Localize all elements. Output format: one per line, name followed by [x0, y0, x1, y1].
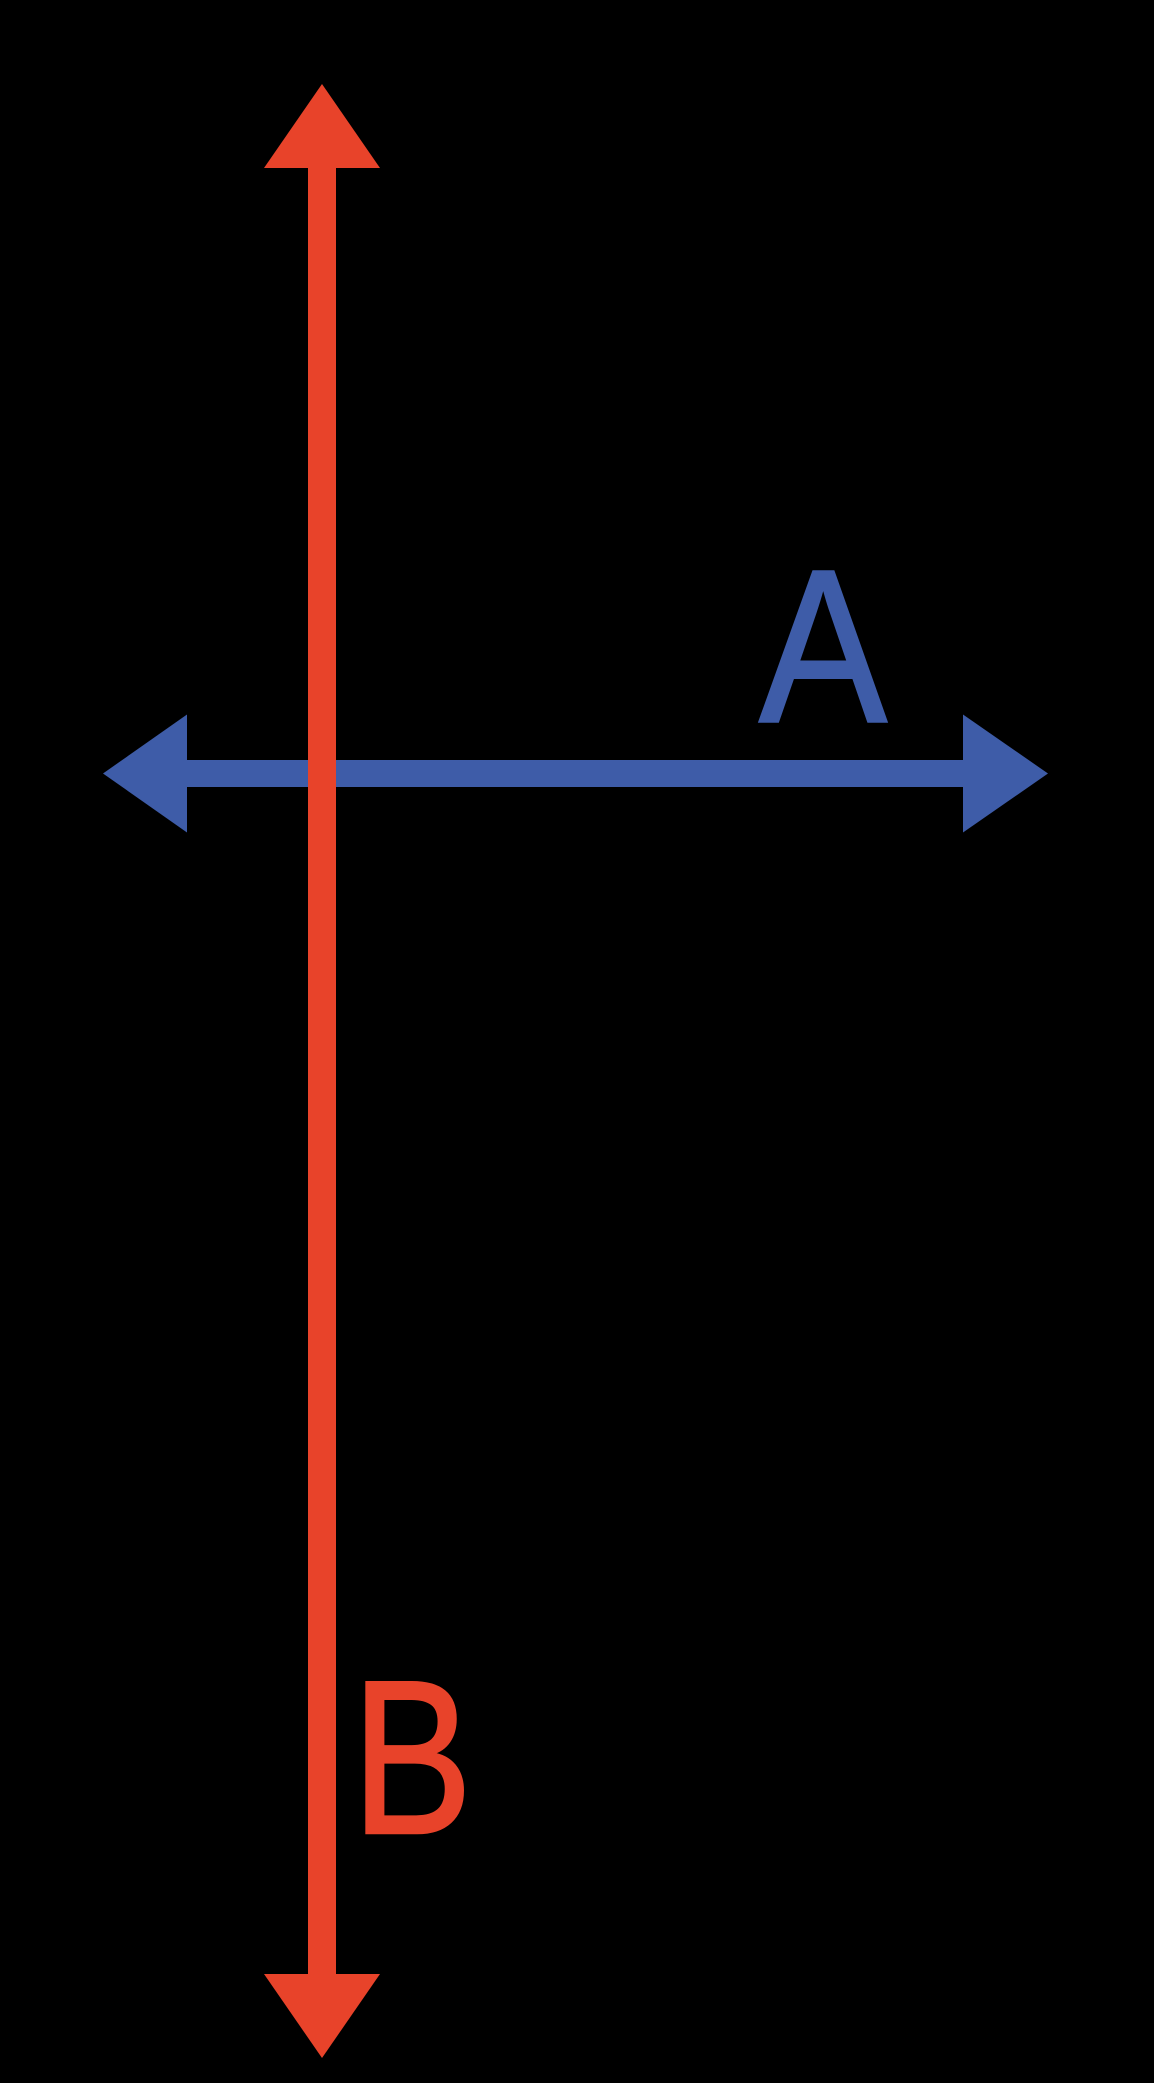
svg-text:A: A — [759, 525, 887, 768]
svg-text:B: B — [352, 1635, 473, 1880]
